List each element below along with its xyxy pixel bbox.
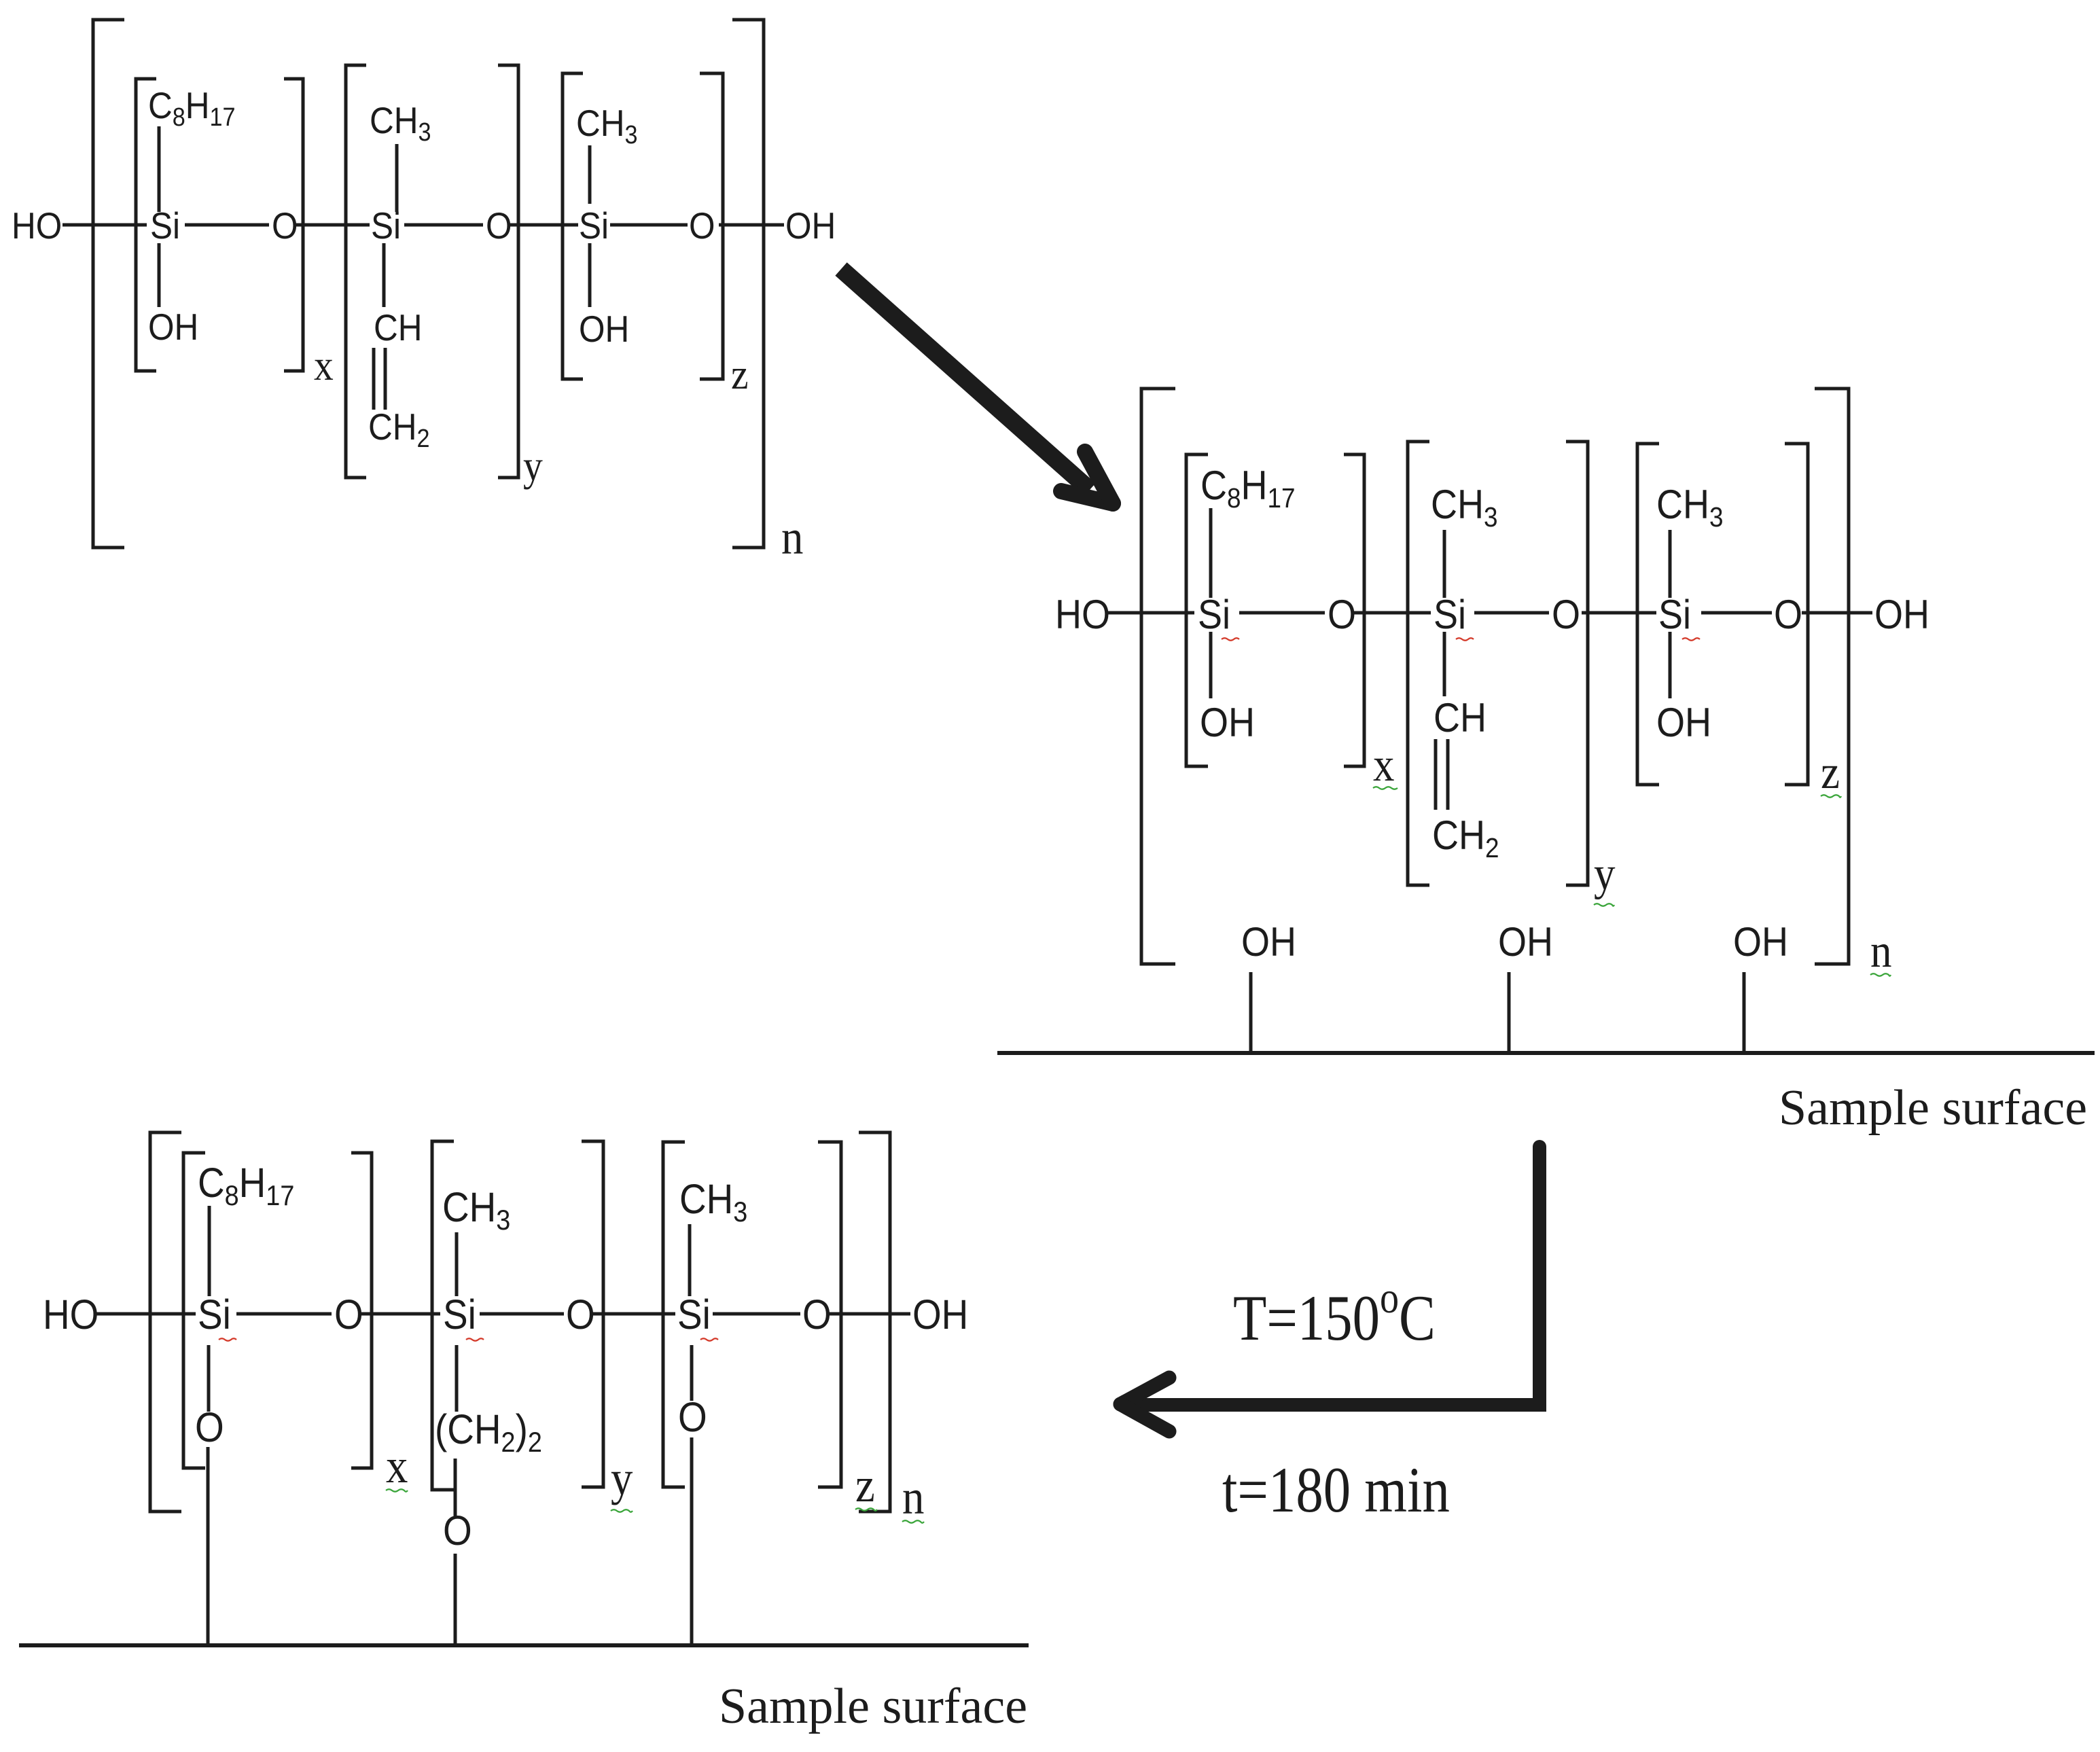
svg-text:z: z: [855, 1458, 875, 1512]
svg-text:CH3​: CH3​: [576, 103, 637, 149]
svg-text:O: O: [689, 206, 715, 247]
svg-text:n: n: [781, 510, 803, 565]
svg-text:y: y: [1594, 848, 1616, 900]
svg-text:OH: OH: [912, 1291, 968, 1338]
svg-text:O: O: [486, 206, 512, 247]
svg-text:OH: OH: [1733, 919, 1788, 965]
svg-text:CH: CH: [1434, 695, 1487, 740]
svg-text:CH: CH: [374, 308, 422, 349]
svg-text:HO: HO: [1055, 592, 1110, 637]
svg-text:T=150o​C: T=150o​C: [1233, 1273, 1436, 1355]
svg-text:Si: Si: [198, 1291, 231, 1338]
svg-text:CH3​: CH3​: [370, 101, 431, 147]
svg-text:HO: HO: [43, 1291, 99, 1338]
svg-text:C8​H17​: C8​H17​: [1200, 463, 1296, 514]
svg-text:OH: OH: [1241, 919, 1296, 965]
svg-text:OH: OH: [1656, 700, 1711, 745]
svg-text:OH: OH: [1200, 700, 1255, 745]
svg-text:C8​H17​: C8​H17​: [198, 1160, 294, 1211]
svg-text:Sample surface: Sample surface: [719, 1679, 1027, 1734]
svg-text:C8​H17​: C8​H17​: [148, 86, 236, 132]
svg-text:OH: OH: [785, 206, 836, 247]
svg-text:Si: Si: [150, 206, 180, 247]
svg-text:n: n: [902, 1470, 924, 1524]
svg-text:z: z: [1821, 747, 1840, 799]
svg-text:z: z: [731, 351, 749, 398]
svg-text:CH3​: CH3​: [1431, 482, 1498, 533]
svg-text:O: O: [1774, 592, 1802, 637]
svg-text:O: O: [334, 1291, 363, 1338]
svg-text:t=180 min: t=180 min: [1222, 1454, 1450, 1526]
svg-text:O: O: [566, 1291, 595, 1338]
svg-text:Si: Si: [443, 1291, 476, 1338]
svg-text:O: O: [272, 206, 298, 247]
svg-text:O: O: [443, 1507, 472, 1554]
svg-text:x: x: [1373, 739, 1395, 791]
svg-text:O: O: [1552, 592, 1580, 637]
svg-text:OH: OH: [1498, 919, 1553, 965]
svg-text:OH: OH: [579, 309, 629, 351]
svg-text:Si: Si: [677, 1291, 711, 1338]
svg-text:n: n: [1870, 925, 1892, 978]
svg-text:O: O: [678, 1394, 707, 1440]
svg-text:Si: Si: [579, 206, 609, 247]
svg-text:CH2​: CH2​: [368, 407, 429, 453]
svg-text:O: O: [1328, 592, 1356, 637]
svg-text:CH2​: CH2​: [1432, 812, 1499, 863]
svg-text:Sample surface: Sample surface: [1779, 1080, 2087, 1136]
svg-text:CH3​: CH3​: [679, 1176, 747, 1228]
svg-text:x: x: [386, 1439, 408, 1493]
svg-text:x: x: [314, 342, 334, 389]
svg-text:Si: Si: [1658, 592, 1691, 637]
svg-text:y: y: [611, 1451, 633, 1505]
svg-text:CH3​: CH3​: [1656, 482, 1724, 533]
svg-text:CH3​: CH3​: [442, 1184, 510, 1236]
svg-text:OH: OH: [1874, 592, 1929, 637]
svg-text:OH: OH: [148, 307, 198, 348]
svg-text:O: O: [195, 1404, 224, 1450]
svg-text:HO: HO: [12, 206, 62, 247]
svg-text:(CH2​)2​: (CH2​)2​: [435, 1406, 542, 1458]
svg-text:O: O: [802, 1291, 832, 1338]
svg-text:y: y: [523, 442, 543, 490]
svg-text:Si: Si: [1434, 592, 1466, 637]
svg-text:Si: Si: [1198, 592, 1230, 637]
